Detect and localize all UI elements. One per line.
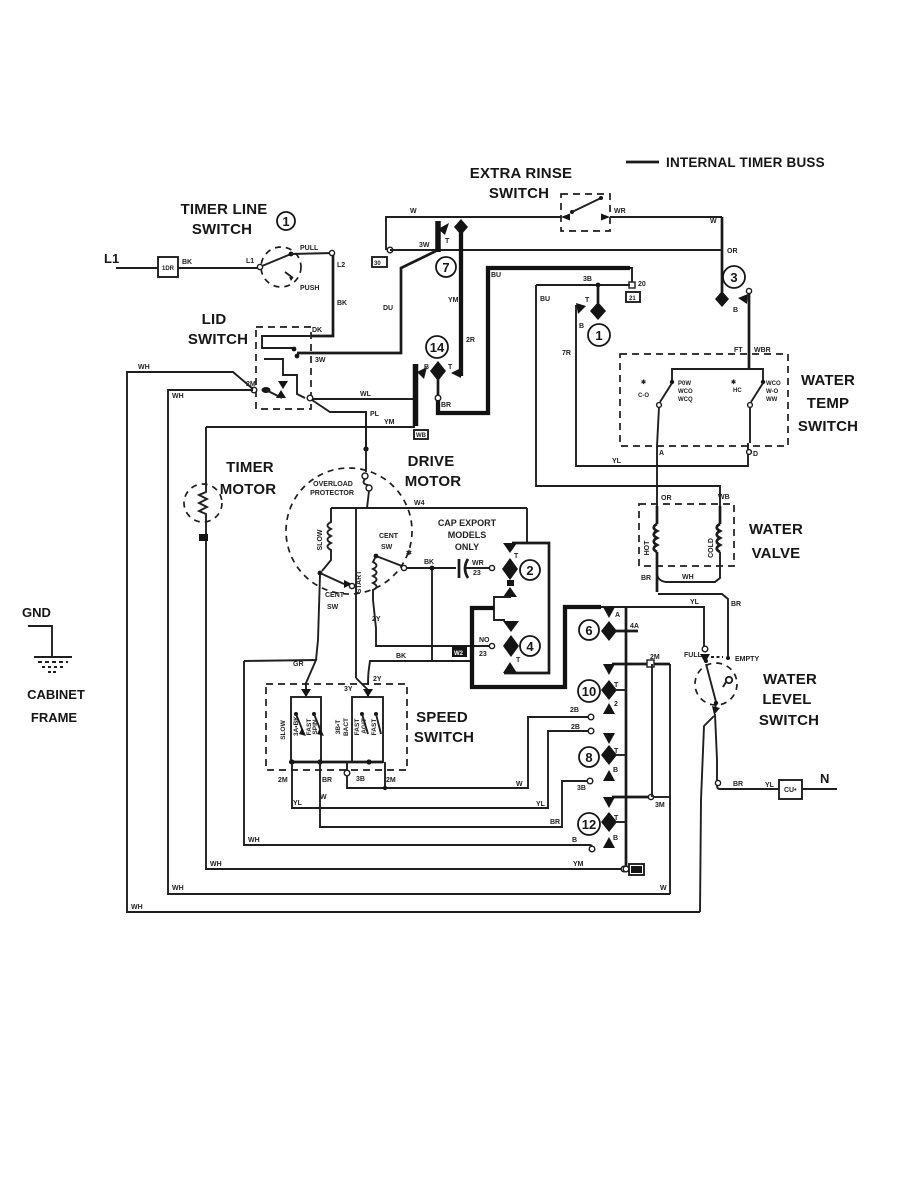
- svg-text:SLOW: SLOW: [280, 719, 287, 739]
- contact 4 bottom triangle on heavy buss: [503, 662, 517, 673]
- svg-text:✱: ✱: [731, 379, 736, 386]
- svg-text:✱: ✱: [406, 549, 412, 557]
- svg-text:21: 21: [629, 296, 636, 302]
- overload protector contact: [365, 412, 367, 472]
- contact 2 bottom node and triangle: [507, 580, 514, 586]
- svg-text:DU: DU: [383, 305, 393, 312]
- svg-text:EXTRA RINSE: EXTRA RINSE: [470, 165, 573, 182]
- svg-text:1: 1: [282, 214, 289, 229]
- svg-text:3M: 3M: [655, 802, 665, 809]
- svg-text:W: W: [710, 218, 717, 225]
- svg-text:WCQ: WCQ: [678, 397, 693, 403]
- svg-text:B: B: [572, 837, 577, 844]
- heavy buss to contact 6 and YL line to water level switch: [601, 607, 704, 650]
- svg-text:WATER: WATER: [749, 521, 803, 538]
- timer cam number 4: [520, 636, 540, 656]
- wire WL lid switch to contact 14 bar: [313, 398, 414, 400]
- contact 10 top triangle: [603, 664, 615, 675]
- svg-text:BK: BK: [396, 653, 406, 660]
- svg-text:EMPTY: EMPTY: [735, 656, 759, 663]
- svg-text:START: START: [356, 570, 363, 594]
- water valve box (dashed): [639, 504, 734, 566]
- svg-text:4: 4: [526, 639, 534, 654]
- contact 12 diamond: [601, 812, 617, 832]
- svg-text:B: B: [613, 767, 618, 774]
- svg-text:NO: NO: [479, 637, 490, 644]
- svg-text:W: W: [516, 781, 523, 788]
- wire to N: [802, 788, 837, 790]
- ground wire: [28, 626, 52, 657]
- ground symbol: [34, 656, 72, 658]
- svg-text:LEVEL: LEVEL: [762, 691, 811, 708]
- svg-text:3A•BK: 3A•BK: [293, 716, 300, 736]
- svg-text:CAP EXPORT: CAP EXPORT: [438, 518, 497, 528]
- contact 12 top triangle: [603, 797, 615, 808]
- pivot symbol: [726, 677, 732, 683]
- wire contact 10 to bus: [615, 689, 626, 691]
- svg-text:30: 30: [374, 261, 381, 267]
- wire speed switch to contact 8 NC: [320, 762, 587, 827]
- svg-text:WH: WH: [131, 904, 143, 911]
- wire contact 8 to bus: [615, 754, 626, 756]
- contact 3 fixed terminal and arrow: [746, 288, 751, 293]
- svg-text:WH: WH: [682, 574, 694, 581]
- contact 8 diamond: [601, 745, 617, 765]
- wire switch to L2 corner: [291, 253, 333, 254]
- contact 4 top triangle: [503, 621, 519, 632]
- svg-text:2: 2: [526, 563, 533, 578]
- svg-text:D: D: [753, 451, 758, 458]
- svg-text:4A: 4A: [630, 623, 639, 630]
- wire BK fuse to timer line switch: [178, 267, 258, 269]
- svg-text:W4: W4: [414, 500, 425, 507]
- timer cam number 12: [578, 813, 600, 835]
- svg-text:WW: WW: [766, 397, 778, 403]
- svg-text:PULL: PULL: [300, 245, 319, 252]
- svg-text:SW: SW: [381, 544, 393, 551]
- svg-text:2M: 2M: [386, 777, 396, 784]
- svg-text:CABINET: CABINET: [27, 687, 85, 702]
- svg-text:BU: BU: [540, 296, 550, 303]
- svg-text:3B: 3B: [356, 776, 365, 783]
- water temp switch feed bar: [672, 369, 763, 382]
- svg-text:DRIVE: DRIVE: [408, 453, 455, 470]
- wire right corner down to contact 3: [721, 217, 724, 293]
- wire right blade down to YL line: [749, 407, 751, 443]
- contact 6 top triangle: [603, 607, 615, 618]
- speed switch right section: [352, 697, 383, 762]
- timer cam number 8: [579, 747, 599, 767]
- svg-text:12: 12: [582, 817, 596, 832]
- wire valve bottom rail WH: [657, 552, 720, 582]
- svg-text:FT: FT: [734, 347, 743, 354]
- contact 2 diamond: [502, 558, 518, 580]
- svg-text:WH: WH: [248, 837, 260, 844]
- timer cam number 10: [578, 680, 600, 702]
- timer motor winding on wire: [199, 427, 622, 869]
- svg-text:COLD: COLD: [708, 538, 715, 558]
- lid switch box (dashed): [256, 327, 311, 409]
- terminal box 21: [626, 292, 640, 302]
- svg-text:W: W: [410, 208, 417, 215]
- motor common vertical: [355, 508, 357, 678]
- extra rinse switch contacts: [561, 214, 570, 221]
- lid switch inner wire lower loop: [264, 359, 305, 398]
- svg-text:N: N: [820, 771, 829, 786]
- wire BU down to water valve cold: [536, 285, 720, 506]
- svg-text:YL: YL: [536, 801, 546, 808]
- svg-text:OVERLOAD: OVERLOAD: [313, 481, 353, 488]
- svg-text:P0W: P0W: [678, 381, 691, 387]
- contact 1 diamond: [590, 302, 606, 320]
- svg-text:3B: 3B: [577, 785, 586, 792]
- timer cam number 7: [436, 257, 456, 277]
- drive motor feed node: [363, 446, 368, 451]
- svg-text:A: A: [659, 450, 664, 457]
- svg-text:YL: YL: [293, 800, 303, 807]
- svg-text:PROTECTOR: PROTECTOR: [310, 490, 354, 497]
- wire OR bus line: [390, 249, 722, 251]
- svg-text:T: T: [514, 553, 519, 560]
- contact 2 top triangle: [503, 543, 517, 553]
- svg-text:GND: GND: [22, 605, 51, 620]
- wire WH second loop from lid switch: [168, 390, 670, 894]
- svg-text:W: W: [660, 885, 667, 892]
- svg-text:T: T: [445, 238, 450, 245]
- svg-text:BR: BR: [733, 781, 743, 788]
- svg-text:WH: WH: [210, 861, 222, 868]
- svg-text:A: A: [615, 612, 620, 619]
- svg-text:WCO: WCO: [766, 381, 781, 387]
- svg-text:C-O: C-O: [638, 393, 649, 399]
- lid switch output terminal: [307, 395, 313, 401]
- svg-text:SWITCH: SWITCH: [759, 712, 819, 729]
- svg-text:✱: ✱: [641, 379, 646, 386]
- wire PL lid switch to drive motor: [312, 400, 366, 451]
- svg-text:23: 23: [479, 651, 487, 658]
- svg-text:20: 20: [638, 281, 646, 288]
- timer cam number 3: [723, 266, 745, 288]
- node 30 terminal: [387, 247, 393, 253]
- svg-text:W: W: [320, 794, 327, 801]
- contact 12 lower triangle: [603, 837, 615, 848]
- svg-text:BR: BR: [731, 601, 741, 608]
- contact 8 lower triangle: [603, 770, 615, 781]
- wire water level switch down to outer loop: [700, 716, 714, 912]
- svg-text:BU: BU: [491, 272, 501, 279]
- speed switch box (dashed): [266, 684, 407, 770]
- terminal box WB below contact 14: [414, 430, 428, 439]
- svg-text:BR: BR: [441, 402, 451, 409]
- svg-text:HOT: HOT: [644, 540, 651, 556]
- svg-text:B: B: [733, 307, 738, 314]
- wire motor feed riser to contact 2: [526, 508, 528, 543]
- svg-text:WB: WB: [718, 494, 730, 501]
- wire YM timer motor feed line: [206, 426, 415, 428]
- svg-text:W2: W2: [454, 651, 464, 657]
- svg-text:YL: YL: [765, 782, 775, 789]
- svg-text:ONLY: ONLY: [455, 542, 479, 552]
- timer cam number 6: [579, 620, 599, 640]
- svg-text:INTERNAL TIMER BUSS: INTERNAL TIMER BUSS: [666, 155, 825, 170]
- timer contact 7 fixed bar: [435, 221, 441, 252]
- svg-text:WR: WR: [472, 560, 484, 567]
- wire contact 6 to main bus: [615, 630, 638, 633]
- contact 7 diamond on buss: [454, 219, 468, 235]
- svg-text:WATER: WATER: [763, 671, 817, 688]
- heavy buss rectangle around contact 4: [472, 607, 601, 687]
- svg-text:YL: YL: [612, 458, 622, 465]
- wire cent sw to capacitor node: [406, 567, 432, 569]
- timer line switch blade: [257, 264, 262, 269]
- heavy buss contact 14 to terminal 20 riser: [438, 268, 630, 413]
- speed switch bottom rail: [289, 761, 383, 764]
- contact 6 diamond: [601, 621, 617, 641]
- svg-text:WL: WL: [360, 391, 372, 398]
- water level switch blade: [706, 664, 716, 712]
- svg-text:SWITCH: SWITCH: [188, 331, 248, 348]
- lid switch junction: [295, 354, 300, 359]
- capacitor (export models): [434, 567, 456, 569]
- speed switch center output terminal: [346, 762, 348, 770]
- rectangle riser contact feeds: [651, 664, 653, 797]
- svg-text:PL: PL: [370, 411, 380, 418]
- svg-text:DK: DK: [312, 327, 322, 334]
- wire W top line to extra rinse switch: [386, 217, 561, 250]
- svg-text:14: 14: [430, 340, 445, 355]
- svg-text:10: 10: [582, 684, 596, 699]
- water temp switch box (dashed): [620, 354, 788, 446]
- svg-text:PUSH: PUSH: [300, 285, 319, 292]
- contact 2 input terminal: [489, 565, 494, 570]
- svg-text:BK: BK: [337, 300, 347, 307]
- wire motor common to speed switch right: [356, 678, 368, 696]
- svg-text:FAST: FAST: [354, 719, 361, 736]
- drive motor enclosure (dashed): [286, 468, 412, 594]
- svg-text:3W: 3W: [315, 357, 326, 364]
- svg-text:TIMER: TIMER: [226, 459, 274, 476]
- wire loop x244 to contact 12 NC: [244, 661, 592, 847]
- contact 14 diamond: [430, 361, 446, 381]
- legend internal timer buss line: [626, 161, 659, 164]
- svg-text:OR: OR: [661, 495, 672, 502]
- svg-text:WATER: WATER: [801, 372, 855, 389]
- wire contact 1 down and right to water temp switch: [576, 305, 748, 466]
- staircase contact 2 to contact 4: [494, 596, 510, 620]
- contact 3 diamond: [715, 291, 729, 307]
- timer cam number 2: [520, 560, 540, 580]
- svg-text:23: 23: [473, 570, 481, 577]
- svg-text:BK: BK: [182, 259, 192, 266]
- svg-text:T: T: [448, 364, 453, 371]
- svg-text:WH: WH: [172, 885, 184, 892]
- svg-text:MODELS: MODELS: [448, 530, 487, 540]
- svg-text:SW: SW: [327, 604, 339, 611]
- svg-text:WR: WR: [614, 208, 626, 215]
- svg-text:SPEED: SPEED: [416, 709, 468, 726]
- svg-text:MOTOR: MOTOR: [405, 473, 462, 490]
- drive motor internal bus: [331, 507, 527, 509]
- wire water level switch to N: [715, 714, 779, 789]
- wire valve to water level switch empty: [658, 594, 728, 656]
- svg-text:CENT: CENT: [325, 592, 345, 599]
- svg-text:SWITCH: SWITCH: [414, 729, 474, 746]
- svg-text:7: 7: [442, 260, 449, 275]
- svg-text:T: T: [585, 297, 590, 304]
- contact 14 fixed bar: [413, 364, 419, 426]
- svg-text:WH: WH: [138, 364, 150, 371]
- speed switch left section: [291, 697, 321, 762]
- contact 1 arrow: [576, 303, 586, 314]
- svg-text:L1: L1: [246, 258, 254, 265]
- wire corner down to terminal 20: [630, 268, 632, 282]
- svg-text:B: B: [613, 835, 618, 842]
- wire 3B line to contact 1: [536, 284, 630, 286]
- contact 10 feed from rectangle: [612, 663, 670, 666]
- wire capacitor drop to BK line: [431, 570, 433, 661]
- timer contact number 1: [277, 212, 295, 230]
- contact 4 diamond: [503, 635, 519, 657]
- wire L1 to fuse: [116, 267, 158, 269]
- contact 14 upper arrow on buss end: [451, 368, 461, 378]
- svg-text:2Y: 2Y: [373, 676, 382, 683]
- extra rinse switch box (dashed): [561, 194, 610, 231]
- main contact bus vertical: [625, 607, 628, 866]
- timer cam number 1: [588, 324, 610, 346]
- svg-text:2B: 2B: [571, 724, 580, 731]
- svg-text:1: 1: [595, 328, 602, 343]
- strap wire contact2 top to contact4 bottom: [504, 543, 549, 673]
- svg-text:3W: 3W: [419, 242, 430, 249]
- svg-text:WCO: WCO: [678, 389, 693, 395]
- svg-text:8: 8: [585, 750, 592, 765]
- svg-text:L1: L1: [104, 251, 119, 266]
- svg-text:3: 3: [730, 270, 737, 285]
- wire BK vertical L2 down to lid switch: [312, 255, 333, 336]
- wire WR extra rinse to right corner: [610, 216, 722, 218]
- svg-text:2: 2: [614, 701, 618, 708]
- svg-text:W-O: W-O: [766, 389, 779, 395]
- svg-text:SWITCH: SWITCH: [798, 418, 858, 435]
- contact 10 lower triangle: [603, 703, 615, 714]
- svg-text:MOTOR: MOTOR: [220, 481, 277, 498]
- timer motor enclosure (dashed): [184, 484, 222, 522]
- svg-text:TIMER LINE: TIMER LINE: [181, 201, 268, 218]
- lid switch blade: [251, 387, 257, 393]
- svg-text:YM: YM: [384, 419, 395, 426]
- contact 8 top triangle: [603, 733, 615, 744]
- svg-text:BACT: BACT: [343, 718, 350, 736]
- wire BK speed switch riser to heavy rect: [368, 661, 473, 685]
- svg-text:SWITCH: SWITCH: [489, 185, 549, 202]
- terminal box W2 on start wire: [452, 646, 467, 657]
- water temp switch left blade C-O: [660, 383, 672, 402]
- svg-text:B: B: [579, 323, 584, 330]
- svg-text:BK: BK: [424, 559, 434, 566]
- svg-text:TEMP: TEMP: [807, 395, 849, 412]
- svg-text:1DR: 1DR: [162, 266, 175, 272]
- svg-text:WH: WH: [172, 393, 184, 400]
- wire speed switch to contact 10 NC: [347, 717, 588, 788]
- svg-text:YM: YM: [573, 861, 584, 868]
- wire GR junction to speed switch left: [244, 660, 316, 696]
- svg-text:3B•T: 3B•T: [335, 720, 342, 735]
- svg-text:2M: 2M: [246, 381, 256, 388]
- wire OR temp switch to water valve hot: [657, 407, 659, 524]
- wire lower cent sw pivot down to GR junction: [316, 575, 320, 660]
- svg-text:SWITCH: SWITCH: [192, 221, 252, 238]
- contact 14 bar arrow: [417, 367, 427, 379]
- svg-text:FULL: FULL: [684, 652, 703, 659]
- wire YL speed switch to contact 8 feed: [292, 731, 588, 808]
- svg-text:HC: HC: [733, 388, 742, 394]
- lid switch NC contact triangle: [276, 390, 286, 398]
- svg-text:3Y: 3Y: [344, 686, 353, 693]
- contact 12 NC terminal: [589, 846, 595, 852]
- svg-text:3B: 3B: [583, 276, 592, 283]
- svg-text:T: T: [516, 657, 521, 664]
- svg-text:B: B: [424, 364, 429, 371]
- svg-text:FRAME: FRAME: [31, 710, 78, 725]
- fuse/connector 1DR: [158, 257, 178, 277]
- heavy buss wire contact 7 down to contact 14: [459, 230, 463, 376]
- svg-text:VALVE: VALVE: [752, 545, 801, 562]
- svg-text:OR: OR: [727, 248, 738, 255]
- contact 12 feed heavy: [612, 796, 650, 799]
- terminal circle and box BK at end of timer motor wire: [621, 866, 627, 872]
- svg-text:YL: YL: [690, 599, 700, 606]
- svg-text:2M: 2M: [650, 654, 660, 661]
- svg-text:CENT: CENT: [379, 533, 399, 540]
- wire heavy lid switch to contact 7 riser: [297, 251, 436, 353]
- svg-text:2R: 2R: [466, 337, 475, 344]
- contact 14 stem to terminal: [437, 379, 440, 396]
- contact 10 diamond: [601, 680, 617, 700]
- svg-text:6: 6: [585, 623, 592, 638]
- wire WH left loop from lid switch (outermost): [127, 372, 700, 912]
- timer line switch enclosure (dashed): [261, 247, 301, 287]
- wire FT down to water temp switch: [748, 293, 751, 369]
- svg-text:CU•: CU•: [784, 787, 797, 794]
- svg-text:2B: 2B: [570, 707, 579, 714]
- wire contact 12 to bus: [615, 821, 626, 823]
- svg-text:GR: GR: [293, 661, 304, 668]
- contact 1 stem: [597, 285, 600, 303]
- water level switch enclosure (dashed): [695, 663, 737, 705]
- svg-text:L2: L2: [337, 262, 345, 269]
- svg-text:WB: WB: [416, 433, 427, 439]
- terminal box CU: [779, 780, 802, 799]
- lid switch inner wire top loop: [262, 336, 312, 348]
- svg-text:BR: BR: [550, 819, 560, 826]
- svg-text:WBR: WBR: [754, 347, 771, 354]
- svg-text:YM: YM: [448, 297, 459, 304]
- svg-text:BR: BR: [641, 575, 651, 582]
- svg-text:BR: BR: [322, 777, 332, 784]
- svg-text:7R: 7R: [562, 350, 571, 357]
- svg-text:SLOW: SLOW: [317, 529, 324, 550]
- svg-text:2M: 2M: [278, 777, 288, 784]
- water temp switch right blade HC: [751, 383, 763, 402]
- contact 7 arrow: [438, 223, 449, 235]
- svg-text:LID: LID: [202, 311, 227, 328]
- timer cam number 14: [426, 336, 448, 358]
- svg-text:2Y: 2Y: [372, 616, 381, 623]
